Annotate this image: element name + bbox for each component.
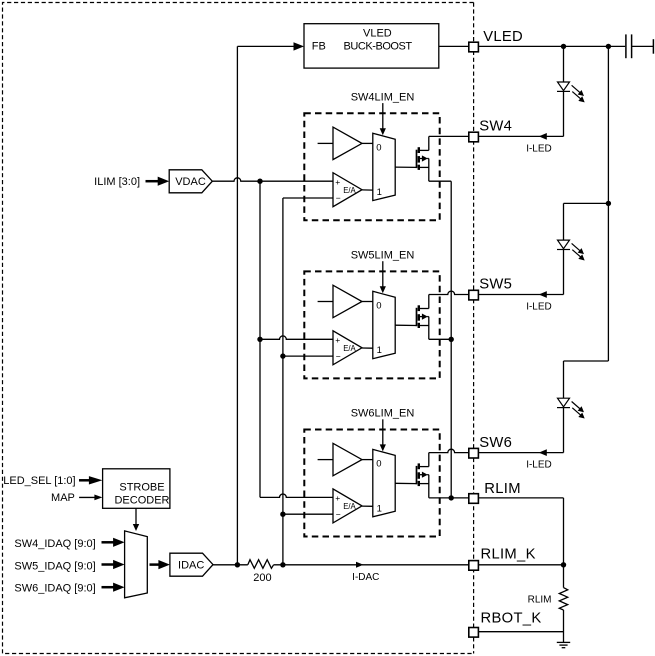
svg-text:+: + — [335, 335, 340, 345]
svg-text:1: 1 — [377, 345, 382, 356]
svg-text:STROBE: STROBE — [119, 482, 164, 494]
svg-text:VLED: VLED — [483, 29, 523, 45]
svg-text:I-LED: I-LED — [526, 460, 552, 471]
svg-text:RLIM_K: RLIM_K — [481, 547, 536, 563]
svg-text:200: 200 — [253, 572, 271, 584]
svg-text:SW4LIM_EN: SW4LIM_EN — [351, 91, 415, 103]
svg-text:RLIM: RLIM — [484, 481, 521, 497]
svg-text:SW5: SW5 — [479, 277, 512, 293]
svg-text:E/A: E/A — [343, 344, 356, 353]
svg-text:I-LED: I-LED — [526, 143, 552, 154]
svg-text:SW6_IDAQ [9:0]: SW6_IDAQ [9:0] — [14, 583, 95, 595]
svg-text:RLIM: RLIM — [528, 594, 552, 605]
svg-text:E/A: E/A — [343, 186, 356, 195]
svg-text:+: + — [335, 177, 340, 187]
svg-text:0: 0 — [376, 459, 381, 470]
svg-text:1: 1 — [377, 503, 382, 514]
svg-text:SW5LIM_EN: SW5LIM_EN — [351, 250, 415, 262]
svg-text:VDAC: VDAC — [175, 176, 206, 188]
svg-text:SW4: SW4 — [479, 119, 512, 135]
svg-text:+: + — [335, 493, 340, 503]
svg-text:RBOT_K: RBOT_K — [481, 611, 542, 627]
svg-text:SW5_IDAQ [9:0]: SW5_IDAQ [9:0] — [14, 560, 95, 572]
svg-text:SW4_IDAQ [9:0]: SW4_IDAQ [9:0] — [14, 538, 95, 550]
svg-text:BUCK-BOOST: BUCK-BOOST — [343, 41, 412, 53]
svg-text:0: 0 — [376, 142, 381, 153]
svg-text:I-DAC: I-DAC — [352, 572, 379, 583]
svg-text:E/A: E/A — [343, 502, 356, 511]
svg-text:DECODER: DECODER — [114, 495, 169, 507]
svg-text:I-LED: I-LED — [526, 302, 552, 313]
svg-text:1: 1 — [377, 187, 382, 198]
svg-text:IDAC: IDAC — [178, 560, 204, 572]
svg-text:−: − — [336, 351, 341, 361]
svg-text:−: − — [336, 509, 341, 519]
svg-text:VLED: VLED — [363, 27, 392, 39]
svg-text:MAP: MAP — [51, 492, 75, 504]
svg-text:FB: FB — [312, 41, 326, 53]
svg-text:LED_SEL [1:0]: LED_SEL [1:0] — [3, 475, 75, 487]
svg-text:SW6LIM_EN: SW6LIM_EN — [351, 408, 415, 420]
svg-text:SW6: SW6 — [479, 435, 512, 451]
svg-text:0: 0 — [376, 300, 381, 311]
svg-text:ILIM [3:0]: ILIM [3:0] — [94, 176, 140, 188]
svg-text:−: − — [336, 193, 341, 203]
